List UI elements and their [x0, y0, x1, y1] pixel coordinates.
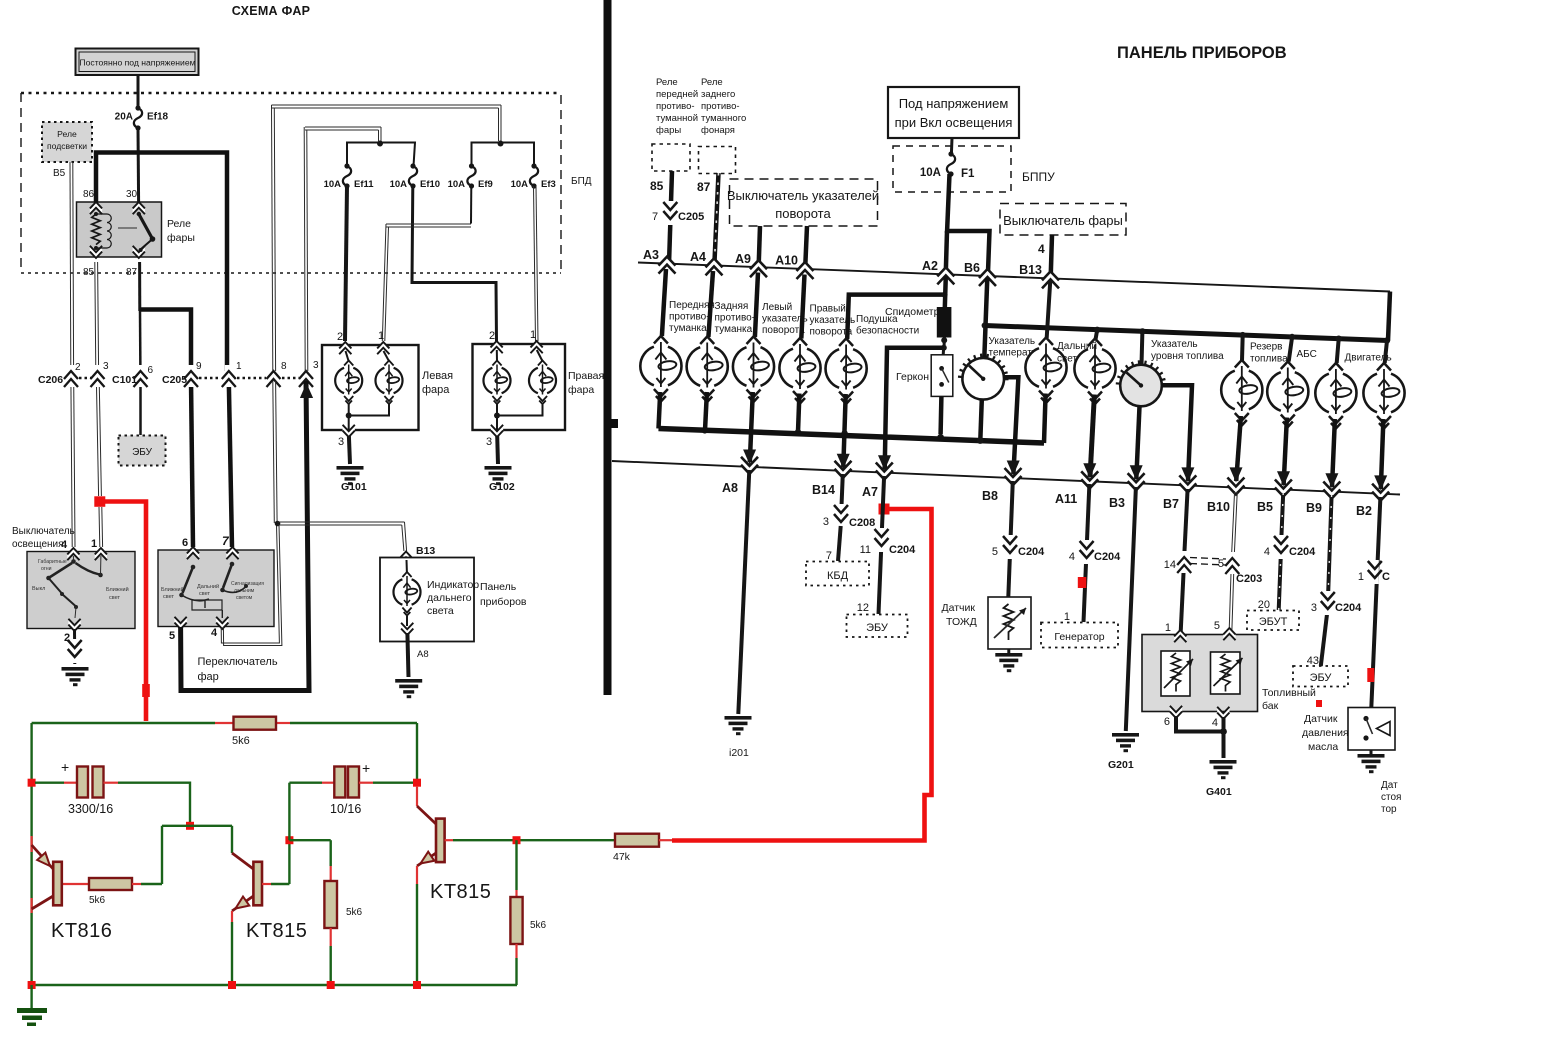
svg-text:Передняя: Передняя: [669, 300, 715, 311]
ground below oil switch: [1358, 750, 1385, 773]
wire: ABS lamp to B5: [1277, 418, 1290, 487]
rail 3 (lower connector rail): [612, 461, 1400, 495]
fuse EF9 10A: [448, 163, 493, 190]
svg-text:при Вкл освещения: при Вкл освещения: [895, 115, 1013, 130]
wire: top rail from relay 86 to right branch: [96, 153, 227, 372]
wire: Геркон to lamp bus (junction): [937, 396, 943, 440]
svg-text:стоя: стоя: [1381, 792, 1401, 803]
svg-text:Указатель: Указатель: [1151, 339, 1198, 350]
rail1 labels: [643, 248, 1042, 277]
wire: B2 below rail: [1371, 497, 1380, 708]
fuel level sender (variable resistor 1): [1161, 651, 1193, 696]
lamp common bus (bottom of indicator row): [659, 429, 1045, 444]
svg-text:A2: A2: [922, 259, 938, 273]
connector C204 pin 4 on B5 wire: [1264, 535, 1316, 559]
wire: tank pins to ground G401: [1176, 716, 1237, 798]
svg-text:дальнего: дальнего: [427, 592, 472, 604]
wire: left rail (green): [30, 723, 32, 985]
lamp: right low beam: [483, 350, 510, 404]
svg-text:Ef11: Ef11: [354, 179, 374, 190]
thin rail y128 from node 3 to EF11/EF10 bracket: [304, 127, 381, 371]
wire: oil lamp to B2: [1374, 419, 1387, 490]
svg-text:9: 9: [196, 361, 202, 372]
svg-text:+: +: [362, 760, 370, 776]
rail1 chevrons A3 A4 A9 A10 A2 B6 B13: [659, 257, 1060, 289]
svg-text:G102: G102: [489, 481, 515, 493]
wire: right headlight common to pin 3: [494, 403, 543, 430]
svg-text:1: 1: [91, 538, 97, 550]
wire: bottom ground rail (green): [32, 984, 517, 986]
oil pressure switch box: [1348, 708, 1395, 751]
svg-text:C101: C101: [112, 374, 137, 386]
svg-text:Выключатель фары: Выключатель фары: [1003, 213, 1123, 228]
sensor Датчик ТОЖД: [942, 597, 1032, 649]
light switch internals: [32, 556, 129, 618]
wire: bus2 to engine lamp: [1337, 339, 1339, 363]
red wire: junction to multivibrator supply rail: [99, 502, 150, 722]
svg-text:F1: F1: [961, 168, 975, 180]
svg-text:Под напряжением: Под напряжением: [899, 96, 1009, 111]
svg-text:В5: В5: [53, 168, 66, 179]
resistor R1 5k6 (top): [215, 717, 290, 747]
wire: EF10 to right headlight pin 2: [412, 186, 497, 341]
dashed box around F1 (БППУ): [893, 146, 1055, 192]
svg-text:6: 6: [182, 537, 188, 549]
svg-text:1: 1: [1165, 622, 1171, 634]
svg-text:8: 8: [281, 361, 287, 372]
wire: A7 tap from геркон node: [878, 348, 944, 471]
red wire: 47k output to instrument panel A7: [672, 509, 932, 841]
svg-text:Реле: Реле: [57, 129, 77, 139]
svg-text:i201: i201: [729, 747, 749, 759]
svg-text:7: 7: [652, 211, 658, 223]
svg-text:БППУ: БППУ: [1022, 170, 1055, 184]
junction node B (red): [285, 836, 293, 844]
svg-text:фар: фар: [198, 671, 219, 683]
label Реле передней противотуманной фары: [656, 77, 698, 136]
dashed box Выключатель указателей поворота: [727, 179, 879, 226]
box: Постоянно под напряжением: [76, 49, 199, 76]
wire: temp gauge right to B8: [1004, 377, 1020, 475]
svg-text:4: 4: [61, 539, 68, 551]
svg-text:освещения: освещения: [12, 539, 64, 550]
ЭБУ dotted box (left page): [119, 436, 166, 466]
svg-text:C204: C204: [1094, 551, 1121, 563]
wire: turn switch to rail A9: [759, 226, 760, 268]
label Выключатель освещения: [12, 526, 75, 550]
svg-text:C206: C206: [38, 374, 63, 386]
svg-text:5: 5: [169, 630, 175, 642]
svg-text:C204: C204: [889, 544, 916, 556]
svg-text:10A: 10A: [324, 179, 342, 190]
wire: rail1 end drop to bus2 end: [1388, 292, 1390, 341]
wire: engine lamp to B9: [1325, 419, 1338, 488]
label Датчик давления масла: [1302, 713, 1349, 753]
connector C204 pin 11 on A7 wire: [860, 528, 917, 556]
wire: fog lamp to common bus: [659, 392, 661, 429]
wire: node A to Q2 collector: [232, 826, 253, 869]
svg-text:3: 3: [823, 516, 829, 528]
svg-text:Индикатор: Индикатор: [427, 579, 479, 591]
relay Реле фары box: [77, 202, 195, 257]
box: Индикатор дальнего света / Панель приборов: [380, 558, 527, 642]
svg-text:свет: свет: [1057, 354, 1077, 365]
wire: A3 to front fog lamp: [662, 269, 666, 336]
transistor Q1 KT816: [32, 845, 113, 942]
wire+bus1: A2 to Подушка lamp: [847, 292, 947, 339]
wire: left headlight common to pin 3: [346, 403, 389, 430]
lamp: right high beam: [529, 350, 556, 404]
svg-text:6: 6: [1164, 716, 1170, 728]
label Реле заднего противотуманного фонаря: [701, 77, 746, 136]
svg-text:5k6: 5k6: [89, 895, 106, 906]
wire+ground G101: [337, 436, 367, 493]
svg-text:5k6: 5k6: [530, 920, 547, 931]
svg-text:фара: фара: [568, 384, 594, 396]
gauge Указатель температуры: [958, 336, 1050, 400]
fuse EF3 10A: [511, 163, 556, 190]
svg-text:G101: G101: [341, 481, 367, 493]
lamp (B2 oil pressure): [1363, 363, 1404, 429]
svg-text:B13: B13: [1019, 263, 1042, 277]
red tick near Топливный label: [1316, 700, 1322, 707]
pin 12 + dotted box ЭБУ: [847, 602, 908, 637]
svg-text:Постоянно под напряжением: Постоянно под напряжением: [79, 58, 195, 68]
fuse EF18 20A: [115, 105, 169, 130]
wire: B8 below rail: [1008, 481, 1013, 597]
svg-text:заднего: заднего: [701, 89, 735, 100]
wire: box to fuse F1: [950, 138, 954, 154]
svg-text:B6: B6: [964, 261, 980, 275]
svg-text:A7: A7: [862, 485, 878, 499]
thin rail y106 from node 8 to EF9/EF3 bracket: [272, 105, 502, 371]
svg-text:ЭБУ: ЭБУ: [1310, 672, 1333, 684]
svg-text:Ef9: Ef9: [478, 179, 493, 190]
svg-text:B9: B9: [1306, 501, 1322, 515]
svg-text:противо-: противо-: [715, 313, 756, 324]
tank pins 6 and 4: [1164, 706, 1230, 729]
fuse EF11 10A: [324, 163, 375, 190]
svg-text:B2: B2: [1356, 504, 1372, 518]
lamp (A11 indicator): [1074, 339, 1115, 405]
lamp Подушка безопасности: [826, 314, 920, 404]
svg-text:12: 12: [857, 602, 869, 614]
red junction on A7 wire: [879, 504, 890, 515]
svg-text:7: 7: [826, 550, 832, 562]
wire: left turn lamp through bus to A8: [743, 392, 756, 465]
svg-text:A11: A11: [1055, 492, 1077, 506]
wire: C208 to КБД pin 7: [826, 526, 841, 562]
wire: B7 below rail: [1181, 489, 1188, 632]
lamp Правый указатель поворота: [779, 304, 855, 404]
fuel tank pins 1 and 5: [1165, 620, 1236, 642]
wire: pin 5 U-loop up to connector 3: [181, 381, 314, 691]
junction node (red) left rail / C1: [28, 779, 36, 787]
svg-text:A4: A4: [690, 250, 706, 264]
pin 20 + dotted box ЭБУТ: [1247, 599, 1299, 630]
pin 2 of light switch: [64, 619, 81, 644]
svg-text:туманка: туманка: [669, 323, 707, 334]
svg-text:масла: масла: [1308, 741, 1338, 753]
svg-text:Правый: Правый: [810, 304, 846, 315]
connector C203 pin 5 chevron on B10: [1218, 552, 1239, 574]
svg-text:топлива: топлива: [1250, 354, 1288, 365]
svg-text:Датчик: Датчик: [1304, 713, 1338, 725]
svg-text:1: 1: [236, 361, 242, 372]
svg-text:фонаря: фонаря: [701, 125, 735, 136]
svg-text:Задняя: Задняя: [715, 301, 749, 312]
svg-text:B13: B13: [416, 545, 435, 557]
wire: A9 to left turn lamp: [755, 273, 758, 338]
relay coil: [92, 212, 137, 250]
fuse EF10 10A: [390, 163, 441, 190]
dashed box relay 2: [699, 147, 736, 174]
resistor R5 47k (output): [521, 834, 674, 863]
svg-text:10/16: 10/16: [330, 802, 361, 816]
svg-text:6: 6: [148, 365, 154, 376]
svg-text:B7: B7: [1163, 497, 1179, 511]
wire B5: Реле подсветки to connector C206-2 and switch pin 4: [70, 162, 75, 547]
connector C204 pin 3 on B9 wire: [1311, 591, 1362, 615]
rail3 chevrons: [741, 457, 1389, 501]
wire: A8 to ground i201: [725, 470, 752, 759]
svg-text:поворота: поворота: [775, 206, 831, 221]
wire: relay 85 to C206-3 to switch pin 1: [95, 262, 103, 547]
wire: Дальний свет lamp to bus right end: [1044, 394, 1046, 444]
wire: battery feed to fuse EF18: [137, 75, 140, 108]
lamp: left high beam: [375, 351, 402, 404]
svg-text:Датчик: Датчик: [942, 602, 976, 614]
svg-text:Реле: Реле: [656, 77, 678, 88]
bus2 junction dots: [1094, 327, 1390, 344]
svg-text:фары: фары: [656, 125, 681, 136]
svg-text:БПД: БПД: [571, 176, 592, 187]
wire: fuel gauge bottom to B3: [1130, 406, 1143, 480]
svg-text:85: 85: [650, 179, 664, 193]
gauge Указатель уровня топлива: [1116, 339, 1224, 406]
svg-text:Ближний: Ближний: [161, 586, 184, 593]
fuse F1 10A: [920, 151, 975, 180]
svg-text:поворота: поворота: [762, 325, 805, 336]
wire: relay pin 87 to rail A4 (striped): [697, 173, 719, 266]
wire: B10 thin pair below rail: [1229, 491, 1237, 630]
connector pin 1 C204 on B2 wire: [1358, 560, 1390, 584]
pin 43 + dotted box ЭБУ (right): [1293, 655, 1348, 687]
svg-text:2: 2: [489, 330, 495, 342]
wire: A10 to right turn lamp: [801, 275, 804, 339]
pin 3 right headlight: [486, 425, 503, 448]
svg-text:фара: фара: [422, 384, 450, 396]
connector C204 pin 5 on B8 wire: [992, 535, 1045, 559]
dashed box relay 1: [652, 144, 690, 171]
svg-text:10A: 10A: [920, 167, 941, 179]
svg-text:СХЕМА ФАР: СХЕМА ФАР: [232, 4, 311, 18]
red junction on wire 85/C206-3: [94, 496, 105, 507]
svg-text:5: 5: [1218, 558, 1224, 570]
connector C203 pin 14 chevron on B7: [1164, 551, 1191, 573]
svg-text:противо-: противо-: [656, 101, 695, 112]
svg-text:безопасности: безопасности: [856, 325, 919, 337]
svg-text:20: 20: [1258, 599, 1270, 611]
svg-text:A8: A8: [722, 481, 738, 495]
svg-text:туманка: туманка: [715, 324, 753, 335]
lamp: high beam indicator: [393, 560, 420, 626]
svg-text:4: 4: [1069, 551, 1075, 563]
rail3 labels: [722, 481, 1372, 518]
wire: node A crossbar: [162, 826, 232, 884]
wire: Q2 base to node B: [262, 840, 289, 884]
wire: A2 down to speedometer sensor: [945, 276, 946, 308]
red segment on B2 wire: [1367, 668, 1374, 682]
wire: relay 87 branch to C205-9 and C101-6: [140, 262, 193, 547]
lamp АБС: [1267, 349, 1317, 427]
svg-text:G401: G401: [1206, 786, 1232, 798]
svg-text:B5: B5: [1257, 500, 1273, 514]
wire: B14 below rail: [841, 474, 843, 511]
svg-text:ТОЖД: ТОЖД: [946, 616, 977, 628]
svg-text:свет: свет: [109, 595, 120, 601]
wire: bus2 to fuel reserve lamp: [1240, 335, 1245, 360]
svg-text:1: 1: [1064, 611, 1070, 623]
wire: B13 node to indicator pin B13: [278, 522, 407, 551]
svg-text:47k: 47k: [613, 851, 631, 863]
box: Правая фара: [473, 344, 605, 430]
wire: bus2 to charge lamp: [1096, 330, 1098, 339]
svg-text:A9: A9: [735, 252, 751, 266]
bracket rail EF9-EF3: [472, 143, 535, 167]
wire: EF9 via thin pair to left headlight pin 1: [382, 186, 471, 341]
junction nodes on ground rail (red): [28, 981, 421, 989]
svg-text:Выкл: Выкл: [32, 586, 45, 592]
svg-text:C208: C208: [849, 517, 875, 529]
junction node above EF11: [377, 141, 383, 147]
dimmer switch internals: [161, 562, 264, 618]
svg-text:1: 1: [378, 330, 384, 342]
svg-text:3300/16: 3300/16: [68, 802, 113, 816]
capacitor C2 10/16: [289, 760, 417, 840]
svg-text:87: 87: [697, 180, 711, 194]
wire: Подушка lamp through bus to B14: [837, 394, 850, 469]
box: Под напряжением при Вкл освещения: [888, 87, 1019, 138]
box: Реле подсветки: [42, 122, 92, 162]
svg-text:3: 3: [313, 360, 319, 371]
svg-text:1: 1: [1358, 571, 1364, 583]
svg-text:передней: передней: [656, 89, 698, 100]
ground below ТОЖД: [995, 649, 1022, 672]
lamp Дальний свет: [1025, 338, 1066, 404]
svg-text:B14: B14: [812, 483, 835, 497]
svg-text:4: 4: [1264, 546, 1270, 558]
svg-text:Ближний: Ближний: [106, 586, 129, 593]
svg-text:бак: бак: [1262, 700, 1279, 712]
svg-text:10A: 10A: [448, 179, 466, 190]
rail 1 (upper connector rail): [638, 263, 1390, 292]
wire: headlamp switch pin 4 to rail B13: [1038, 235, 1052, 280]
wire: fuel gauge right to B7: [1162, 385, 1195, 482]
connector C205 pin 7 on wire 85: [652, 201, 704, 225]
svg-text:3: 3: [1311, 602, 1317, 614]
connector C204 pin 4 on A11 wire: [1069, 540, 1121, 564]
svg-text:4: 4: [1038, 242, 1045, 256]
pin B13 of indicator: [400, 545, 436, 564]
box: Выключатель освещения: [27, 552, 135, 629]
wire: pin 4 U-loop up to B13 node: [221, 525, 282, 646]
svg-text:5: 5: [1214, 620, 1220, 632]
wire: B6 to temperature gauge with bus2 tap: [982, 278, 988, 358]
svg-text:C: C: [1382, 571, 1390, 583]
svg-text:свет: свет: [199, 591, 210, 597]
svg-text:10A: 10A: [511, 179, 529, 190]
connector C208 pin 3: [823, 504, 875, 529]
svg-text:ЭБУ: ЭБУ: [132, 447, 153, 458]
svg-text:5k6: 5k6: [346, 907, 363, 918]
svg-text:противо-: противо-: [701, 101, 740, 112]
wire: rear fog lamp to bus (junction): [702, 392, 708, 434]
svg-text:туманного: туманного: [701, 113, 746, 124]
svg-text:A10: A10: [775, 254, 798, 268]
wire: connector 8 down to B13 node: [273, 381, 281, 526]
svg-text:2: 2: [337, 331, 343, 343]
svg-text:B10: B10: [1207, 500, 1230, 514]
label Датчик стояночного тормоза (clipped): [1381, 780, 1401, 815]
bracket rail EF11-EF10: [347, 143, 415, 167]
wire: right turn lamp to bus (junction): [795, 394, 801, 436]
wire: Q3 base to node C: [445, 839, 517, 841]
box Топливный бак: [1142, 635, 1316, 713]
svg-text:света: света: [427, 605, 454, 617]
wire: temp gauge bottom to bus (junction): [977, 400, 983, 444]
pin 3 left headlight: [338, 425, 355, 448]
relay switch contact: [137, 212, 156, 252]
svg-text:Выключатель указателей: Выключатель указателей: [727, 188, 879, 203]
svg-text:30: 30: [126, 189, 138, 200]
junction node (red) right rail / C2: [413, 779, 421, 787]
svg-text:10A: 10A: [390, 179, 408, 190]
connector row C206 / C101 / C205: [38, 360, 319, 387]
wire: B13 to high-beam indicator lamp: [1047, 280, 1051, 338]
svg-text:B8: B8: [982, 489, 998, 503]
svg-text:KT815: KT815: [430, 881, 491, 903]
lamp Двигатель: [1315, 353, 1391, 429]
junction node C (red): [513, 836, 521, 844]
wire: EF11 to left headlight pin 2: [345, 186, 347, 341]
svg-text:C205: C205: [162, 374, 187, 386]
svg-text:A8: A8: [417, 649, 429, 660]
svg-text:фары: фары: [167, 232, 195, 244]
wire+ground below indicator: [395, 633, 422, 698]
wire: A11 lamp down to rail3: [1083, 395, 1096, 479]
resistor R3 5k6 (vertical): [324, 866, 362, 985]
svg-text:G201: G201: [1108, 759, 1134, 771]
svg-text:давления: давления: [1302, 727, 1349, 739]
svg-text:Ef10: Ef10: [420, 179, 440, 190]
transistor Q2 KT815: [232, 862, 307, 942]
dashed box Выключатель фары: [1000, 204, 1126, 236]
dotted box КБД: [806, 562, 869, 586]
svg-text:ПАНЕЛЬ ПРИБОРОВ: ПАНЕЛЬ ПРИБОРОВ: [1117, 44, 1287, 62]
svg-text:1: 1: [530, 329, 536, 341]
pin A8 of indicator: [401, 623, 429, 660]
svg-text:KT815: KT815: [246, 920, 307, 942]
wire: reserve lamp to B10: [1230, 416, 1243, 482]
svg-text:противо-: противо-: [669, 312, 710, 323]
pins 5 and 4: [169, 617, 228, 642]
svg-text:ЭБУТ: ЭБУТ: [1259, 616, 1288, 628]
relay pin labels 86 30 85 87: [83, 189, 138, 278]
lamp Передняя противотуманка: [640, 300, 715, 402]
wire: node B to R3: [289, 840, 330, 866]
svg-text:светом: светом: [236, 595, 253, 601]
